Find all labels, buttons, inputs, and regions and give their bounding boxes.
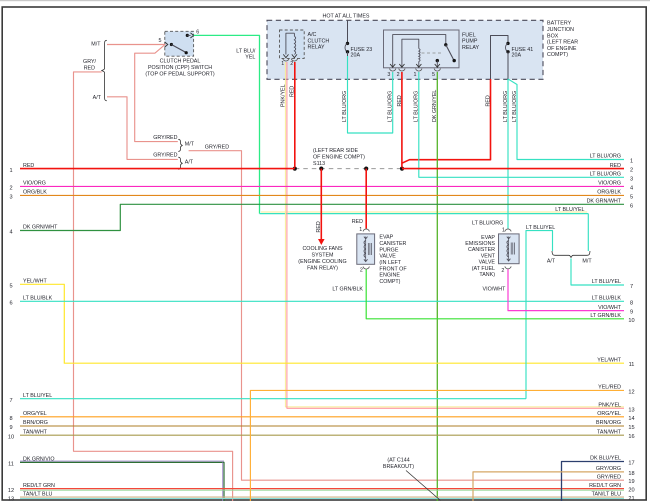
svg-text:YEL: YEL	[245, 55, 255, 61]
pin 6 arrow	[187, 34, 190, 36]
wire LT BLU/YEL horizontal	[260, 213, 589, 215]
valve EVAP EMISSIONS CANISTER VENT VALVE box	[499, 234, 520, 264]
battery junction box dashed region	[267, 20, 543, 79]
svg-text:BATTERY: BATTERY	[547, 21, 572, 27]
svg-text:(LEFT REAR SIDE: (LEFT REAR SIDE	[313, 148, 358, 154]
pin 2 connector cup	[399, 69, 405, 72]
svg-text:RED/LT GRN: RED/LT GRN	[23, 483, 55, 489]
svg-text:10: 10	[628, 318, 634, 324]
relay FUEL PUMP RELAY box	[384, 30, 460, 68]
svg-text:RELAY: RELAY	[308, 45, 326, 51]
svg-text:6: 6	[630, 203, 633, 209]
relay switch pivot	[444, 43, 447, 46]
svg-text:LT BLU/ORG: LT BLU/ORG	[503, 91, 509, 122]
svg-text:JUNCTION: JUNCTION	[547, 27, 574, 33]
svg-text:A/T: A/T	[547, 258, 556, 264]
svg-text:LT BLU/ORG: LT BLU/ORG	[512, 91, 518, 122]
fuse F23 lead from box top	[347, 20, 349, 43]
A/C clutch relay internal wire pin 1 side	[286, 33, 295, 54]
svg-text:BREAKOUT): BREAKOUT)	[383, 464, 414, 470]
svg-text:GRY/ORG: GRY/ORG	[596, 466, 621, 472]
svg-text:A/T: A/T	[185, 160, 194, 166]
svg-text:RED/LT GRN: RED/LT GRN	[589, 483, 621, 489]
splice dot 4	[400, 167, 404, 171]
wire LT BLU/YEL riser at x526	[526, 231, 553, 399]
svg-text:VALVE: VALVE	[379, 254, 396, 260]
svg-text:BRN/ORG: BRN/ORG	[596, 420, 621, 426]
relay coil to pin 1	[418, 62, 420, 68]
svg-text:3: 3	[630, 176, 633, 182]
svg-text:EVAP: EVAP	[379, 235, 393, 241]
svg-text:14: 14	[628, 416, 634, 422]
relay A/C CLUTCH RELAY dashed box	[280, 30, 305, 58]
fuse 41 top terminal	[506, 42, 509, 45]
pin 1 connector cup	[283, 59, 289, 62]
fuse 41 element	[506, 43, 508, 51]
svg-text:LT BLU/BLK: LT BLU/BLK	[592, 296, 622, 302]
relay actuation dashed link	[422, 52, 444, 54]
svg-text:PNK/YEL: PNK/YEL	[598, 403, 621, 409]
wire LT BLU/ORG relay pin 1 to right edge 3	[419, 72, 624, 177]
pin 2 connector cup	[291, 59, 297, 62]
svg-text:3: 3	[9, 195, 12, 201]
svg-text:GRY/RED: GRY/RED	[153, 153, 177, 159]
vent valve pin 2 cup	[505, 266, 511, 269]
fuse 23 top terminal	[346, 42, 349, 45]
wire GRY/ORG circuit	[473, 472, 624, 501]
svg-text:YEL/WHT: YEL/WHT	[597, 357, 621, 363]
svg-text:5: 5	[159, 38, 162, 44]
brace A/T stub	[178, 157, 182, 169]
svg-text:(TOP OF PEDAL SUPPORT): (TOP OF PEDAL SUPPORT)	[145, 71, 215, 77]
svg-text:6: 6	[9, 301, 12, 307]
svg-text:9: 9	[9, 425, 12, 431]
svg-text:A/T: A/T	[93, 95, 102, 101]
svg-text:2: 2	[360, 267, 363, 273]
svg-text:GRY/RED: GRY/RED	[597, 474, 621, 480]
svg-text:20A: 20A	[351, 53, 361, 59]
svg-text:1: 1	[9, 168, 12, 174]
wire GRY/RED feed	[74, 72, 233, 501]
svg-text:(IN LEFT: (IN LEFT	[379, 260, 401, 266]
svg-text:1: 1	[502, 228, 505, 234]
svg-text:LT BLU/ORG: LT BLU/ORG	[388, 91, 394, 122]
svg-text:13: 13	[8, 496, 14, 501]
splice dot 3	[364, 167, 368, 171]
svg-text:6: 6	[196, 30, 199, 36]
vent valve pin 1 cup	[505, 229, 511, 232]
svg-text:LT GRN/BLK: LT GRN/BLK	[590, 313, 621, 319]
fuse 23 bottom terminal	[346, 50, 349, 53]
wire LT BLU/YEL merged to right edge 7	[571, 259, 624, 286]
svg-text:1: 1	[414, 72, 417, 78]
svg-text:ORG/BLK: ORG/BLK	[597, 190, 621, 196]
fuse 41 bottom terminal	[506, 50, 509, 53]
wire PNK/YEL from A/C relay pin 1	[285, 62, 624, 407]
svg-text:EMISSIONS: EMISSIONS	[465, 241, 495, 247]
fuse 23 element	[345, 43, 347, 51]
wire RED from A/C relay pin 2 to S113	[294, 62, 296, 168]
svg-text:2: 2	[397, 72, 400, 78]
svg-text:PUMP: PUMP	[462, 39, 478, 45]
purge valve pin 2 cup	[363, 267, 369, 269]
wire M/T to CPP pin 5	[107, 44, 166, 46]
pin 2 arrow	[292, 54, 297, 57]
svg-text:2: 2	[630, 168, 633, 174]
splice S113 dashed bus	[295, 168, 402, 170]
wire LT BLU/ORG fuse 23 to relay pin 3	[348, 56, 393, 133]
CPP contact B	[185, 51, 188, 54]
wire GRY/RED merged going down page	[189, 151, 624, 481]
purge valve pin 1 cup	[363, 229, 369, 232]
svg-text:M/T: M/T	[582, 258, 592, 264]
wire LT BLU/YEL horizontal yellow stripe	[261, 211, 587, 213]
svg-text:20: 20	[628, 488, 634, 494]
svg-text:EVAP: EVAP	[481, 235, 495, 241]
svg-text:7: 7	[630, 284, 633, 290]
relay coil feed wire pin 2	[402, 39, 419, 68]
splice dot 2	[319, 167, 323, 171]
svg-text:1: 1	[630, 159, 633, 165]
svg-text:LT BLU/ORG: LT BLU/ORG	[472, 221, 503, 227]
svg-text:ENGINE: ENGINE	[379, 273, 400, 279]
svg-text:11: 11	[629, 362, 635, 368]
CPP contact A	[170, 43, 173, 46]
svg-text:VENT: VENT	[481, 253, 496, 259]
svg-text:S113: S113	[313, 161, 325, 167]
page top gray edge	[0, 0, 650, 1]
wire RED circuit 2 right	[402, 168, 624, 170]
svg-text:16: 16	[628, 434, 634, 440]
svg-text:VIO/ORG: VIO/ORG	[598, 181, 621, 187]
wire LT BLU/ORG fuse 41 branch to right edge 1	[508, 79, 624, 160]
switch CLUTCH PEDAL POSITION (CPP) dashed box	[165, 31, 194, 56]
svg-text:GRY/: GRY/	[83, 59, 96, 65]
svg-text:LT BLU/: LT BLU/	[236, 48, 256, 54]
svg-text:DK GRN/WHT: DK GRN/WHT	[23, 225, 58, 231]
pin 1 connector cup	[416, 69, 422, 72]
svg-text:ORG/BLK: ORG/BLK	[23, 190, 47, 196]
wire A/T to CPP pin 5	[107, 97, 178, 160]
svg-text:ORG/YEL: ORG/YEL	[597, 411, 621, 417]
svg-text:LT BLU/YEL: LT BLU/YEL	[23, 393, 52, 399]
svg-text:HOT AT ALL TIMES: HOT AT ALL TIMES	[323, 13, 370, 19]
wire LT GRN/BLK from purge valve	[366, 269, 624, 318]
svg-text:POSITION (CPP) SWITCH: POSITION (CPP) SWITCH	[148, 65, 212, 71]
svg-text:TANK): TANK)	[479, 272, 495, 278]
CPP contact pin 6	[186, 34, 189, 37]
wire A/T riser to pin 5	[135, 45, 178, 142]
svg-text:LT BLU/ORG: LT BLU/ORG	[342, 91, 348, 122]
svg-text:DK GRN/WHT: DK GRN/WHT	[587, 199, 622, 205]
svg-text:RED: RED	[84, 65, 95, 71]
wire LT BLU/YEL vertical from CPP pin 6	[194, 35, 260, 213]
svg-text:YEL/RED: YEL/RED	[598, 385, 621, 391]
svg-text:DK GRN/VIO: DK GRN/VIO	[23, 457, 54, 463]
svg-text:CANISTER: CANISTER	[379, 241, 406, 247]
svg-text:(AT FUEL: (AT FUEL	[472, 266, 495, 272]
valve EVAP CANISTER PURGE VALVE box	[357, 234, 375, 264]
CPP switch blade	[171, 45, 186, 53]
svg-text:10: 10	[8, 434, 14, 440]
svg-text:19: 19	[628, 479, 634, 485]
relay switch contact pin 5	[436, 59, 439, 62]
svg-text:TAN/WHT: TAN/WHT	[23, 429, 48, 435]
pin 3 connector cup	[390, 69, 396, 72]
brace A/T-M/T merge	[552, 251, 590, 258]
svg-text:ORG/YEL: ORG/YEL	[23, 411, 47, 417]
svg-text:13: 13	[628, 407, 634, 413]
svg-text:VIO/ORG: VIO/ORG	[23, 181, 46, 187]
svg-text:RED: RED	[397, 95, 403, 106]
wire RED branch to fuse 41	[402, 79, 491, 163]
svg-text:3: 3	[387, 72, 390, 78]
svg-text:GRY/RED: GRY/RED	[205, 145, 229, 151]
svg-text:TAN/LT BLU: TAN/LT BLU	[23, 491, 53, 497]
svg-text:FUEL: FUEL	[462, 32, 476, 38]
svg-text:M/T: M/T	[185, 142, 195, 148]
svg-text:1: 1	[359, 227, 362, 233]
wire DK BLU/YEL circuit	[562, 462, 625, 501]
svg-text:GRY/RED: GRY/RED	[153, 135, 177, 141]
svg-text:COMPT): COMPT)	[547, 52, 568, 58]
svg-text:4: 4	[630, 185, 633, 191]
svg-text:LT BLU/ORG: LT BLU/ORG	[590, 154, 621, 160]
C144 leader line	[406, 471, 441, 501]
svg-text:CLUTCH: CLUTCH	[308, 38, 330, 44]
svg-text:SYSTEM: SYSTEM	[312, 253, 335, 259]
svg-text:LT BLU/BLK: LT BLU/BLK	[23, 296, 53, 302]
svg-text:5: 5	[432, 72, 435, 78]
svg-text:5: 5	[630, 194, 633, 200]
svg-text:BOX: BOX	[547, 33, 559, 39]
relay pin 5 lead	[436, 61, 438, 68]
pin 5 arrow	[165, 42, 168, 47]
svg-text:2: 2	[9, 186, 12, 192]
fuse F41 feed loop	[491, 36, 509, 80]
svg-text:CANISTER: CANISTER	[468, 247, 495, 253]
svg-text:COOLING FANS: COOLING FANS	[302, 246, 343, 252]
svg-text:PURGE: PURGE	[379, 247, 398, 253]
svg-text:(LEFT REAR: (LEFT REAR	[547, 40, 578, 46]
svg-text:21: 21	[628, 496, 634, 501]
wire VIO/WHT from vent valve	[508, 269, 624, 310]
svg-text:FRONT OF: FRONT OF	[379, 266, 407, 272]
svg-text:(ENGINE COOLING: (ENGINE COOLING	[298, 259, 346, 265]
brace M/T-A/T alternatives	[102, 40, 107, 101]
wire RED relay pin 2 to S113	[401, 72, 403, 168]
brace M/T stub	[178, 139, 182, 151]
wire RED to cooling fans	[320, 169, 322, 240]
svg-text:LT BLU/YEL: LT BLU/YEL	[555, 207, 584, 213]
fuel pump relay switch feed wire pin 3	[393, 35, 446, 68]
svg-text:8: 8	[9, 416, 12, 422]
svg-text:VALVE: VALVE	[479, 260, 496, 266]
svg-text:12: 12	[8, 488, 14, 494]
svg-text:18: 18	[628, 471, 634, 477]
svg-text:OF ENGINE COMPT): OF ENGINE COMPT)	[313, 155, 365, 161]
svg-text:RED: RED	[316, 221, 322, 232]
svg-text:(AT C144: (AT C144	[387, 457, 409, 463]
svg-text:2: 2	[290, 61, 293, 67]
wire RED to purge valve	[365, 169, 367, 229]
wire DK GRN/YEL relay pin 5 down off page	[436, 72, 438, 501]
svg-text:TAN/LT BLU: TAN/LT BLU	[592, 491, 622, 497]
A/C clutch relay coil	[293, 33, 295, 36]
svg-text:VIO/WHT: VIO/WHT	[598, 305, 622, 311]
svg-text:LT GRN/BLK: LT GRN/BLK	[332, 286, 363, 292]
svg-text:VIO/WHT: VIO/WHT	[483, 287, 507, 293]
svg-text:CLUTCH PEDAL: CLUTCH PEDAL	[160, 58, 201, 64]
wire YEL/RED circuit	[250, 390, 624, 501]
svg-text:1: 1	[281, 61, 284, 67]
svg-text:RED: RED	[290, 86, 296, 97]
svg-text:M/T: M/T	[91, 41, 101, 47]
svg-text:BRN/ORG: BRN/ORG	[23, 420, 48, 426]
svg-text:PNK/YEL: PNK/YEL	[280, 84, 286, 107]
svg-text:RED: RED	[352, 219, 363, 225]
svg-text:DK GRN/YEL: DK GRN/YEL	[432, 90, 438, 122]
svg-text:RED: RED	[485, 95, 491, 106]
vent valve solenoid symbol	[508, 237, 510, 262]
svg-text:RELAY: RELAY	[462, 45, 480, 51]
svg-text:LT BLU/ORG: LT BLU/ORG	[414, 91, 420, 122]
svg-text:8: 8	[630, 300, 633, 306]
svg-text:15: 15	[628, 425, 634, 431]
svg-text:12: 12	[628, 389, 634, 395]
svg-text:YEL/WHT: YEL/WHT	[23, 279, 47, 285]
svg-text:OF ENGINE: OF ENGINE	[547, 46, 577, 52]
svg-text:LT BLU/YEL: LT BLU/YEL	[526, 225, 555, 231]
wire LT BLU/ORG fuse 41 to vent valve	[507, 79, 509, 229]
svg-text:COMPT): COMPT)	[379, 279, 400, 285]
pin 1 arrow	[283, 54, 288, 57]
fuel pump relay coil	[419, 49, 420, 62]
svg-text:A/C: A/C	[308, 32, 317, 38]
svg-text:5: 5	[9, 284, 12, 290]
pin 5 connector cup	[434, 69, 440, 72]
purge valve solenoid symbol	[365, 237, 367, 262]
svg-text:4: 4	[9, 230, 12, 236]
svg-text:DK BLU/YEL: DK BLU/YEL	[590, 456, 621, 462]
svg-text:LT BLU/YEL: LT BLU/YEL	[592, 279, 621, 285]
svg-text:FAN RELAY): FAN RELAY)	[307, 266, 338, 272]
svg-text:TAN/WHT: TAN/WHT	[597, 429, 622, 435]
splice dot 1	[293, 167, 297, 171]
svg-text:7: 7	[9, 398, 12, 404]
svg-text:LT BLU/ORG: LT BLU/ORG	[590, 172, 621, 178]
svg-text:RED: RED	[610, 163, 621, 169]
relay switch blade	[446, 45, 454, 60]
svg-text:11: 11	[8, 462, 14, 468]
svg-text:17: 17	[628, 461, 634, 467]
svg-text:20A: 20A	[512, 53, 522, 59]
svg-text:9: 9	[630, 310, 633, 316]
wire LT BLU/YEL M/T branch	[587, 214, 589, 251]
svg-text:2: 2	[501, 268, 504, 274]
